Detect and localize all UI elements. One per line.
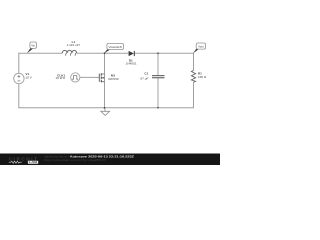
node junction top at M1 drain bbox=[104, 52, 106, 54]
node flag Vswitch bbox=[104, 43, 124, 53]
label L1 bbox=[67, 40, 80, 47]
resistor R1 bbox=[191, 70, 195, 82]
svg-text:Vin: Vin bbox=[31, 44, 35, 48]
label D1 1N4001 bbox=[126, 59, 137, 66]
svg-text:10 kHz: 10 kHz bbox=[56, 76, 66, 80]
svg-text:1N4001: 1N4001 bbox=[126, 62, 137, 66]
capacitor C1 bbox=[152, 76, 165, 78]
node flag Vin bbox=[27, 42, 37, 53]
inductor L1 bbox=[62, 50, 76, 55]
transistor M1 (NMOS) bbox=[99, 73, 104, 82]
wire capacitor branch bbox=[157, 53, 159, 108]
svg-text:http://circuitlab.com/c/7pm2aa: http://circuitlab.com/c/7pm2aa55t37 bbox=[44, 158, 107, 162]
node junction top at C1 bbox=[157, 52, 159, 54]
svg-text:Vout: Vout bbox=[198, 45, 204, 49]
footer bar bbox=[0, 154, 220, 166]
wire gate (CLK1 to M1) bbox=[80, 76, 99, 78]
wire MOSFET drain-source vertical bbox=[104, 53, 106, 108]
node junction bottom at C1 bbox=[157, 107, 159, 109]
svg-text:IRF530: IRF530 bbox=[108, 77, 118, 81]
svg-text:150 Ω: 150 Ω bbox=[198, 75, 207, 79]
wire right branch (R1) bbox=[193, 53, 195, 108]
CircuitLab logo bbox=[9, 156, 39, 164]
clock source CLK1 bbox=[71, 73, 80, 82]
node flag Vout bbox=[193, 43, 206, 53]
svg-text:67 µF: 67 µF bbox=[140, 77, 148, 81]
label C1 67 uF bbox=[140, 72, 148, 81]
voltage source V1 bbox=[14, 73, 24, 83]
svg-text:Vswitch: Vswitch bbox=[108, 45, 122, 49]
diode D1 bbox=[129, 51, 135, 56]
svg-text:LAB: LAB bbox=[29, 160, 38, 164]
label V1 10 V bbox=[25, 72, 32, 79]
wire bottom rail bbox=[18, 107, 194, 109]
svg-text:C1: C1 bbox=[144, 72, 148, 76]
svg-text:10 V: 10 V bbox=[25, 75, 32, 79]
label R1 150 Ohm bbox=[198, 71, 207, 79]
wire top rail bbox=[18, 52, 193, 54]
wire left branch (V1) bbox=[18, 53, 20, 108]
svg-text:1.119 mH: 1.119 mH bbox=[67, 43, 80, 47]
ground bbox=[101, 108, 110, 116]
label M1 IRF530 bbox=[108, 74, 118, 81]
label CLK1 10 kHz bbox=[56, 73, 66, 80]
node junction bottom at M1 source bbox=[104, 107, 106, 109]
